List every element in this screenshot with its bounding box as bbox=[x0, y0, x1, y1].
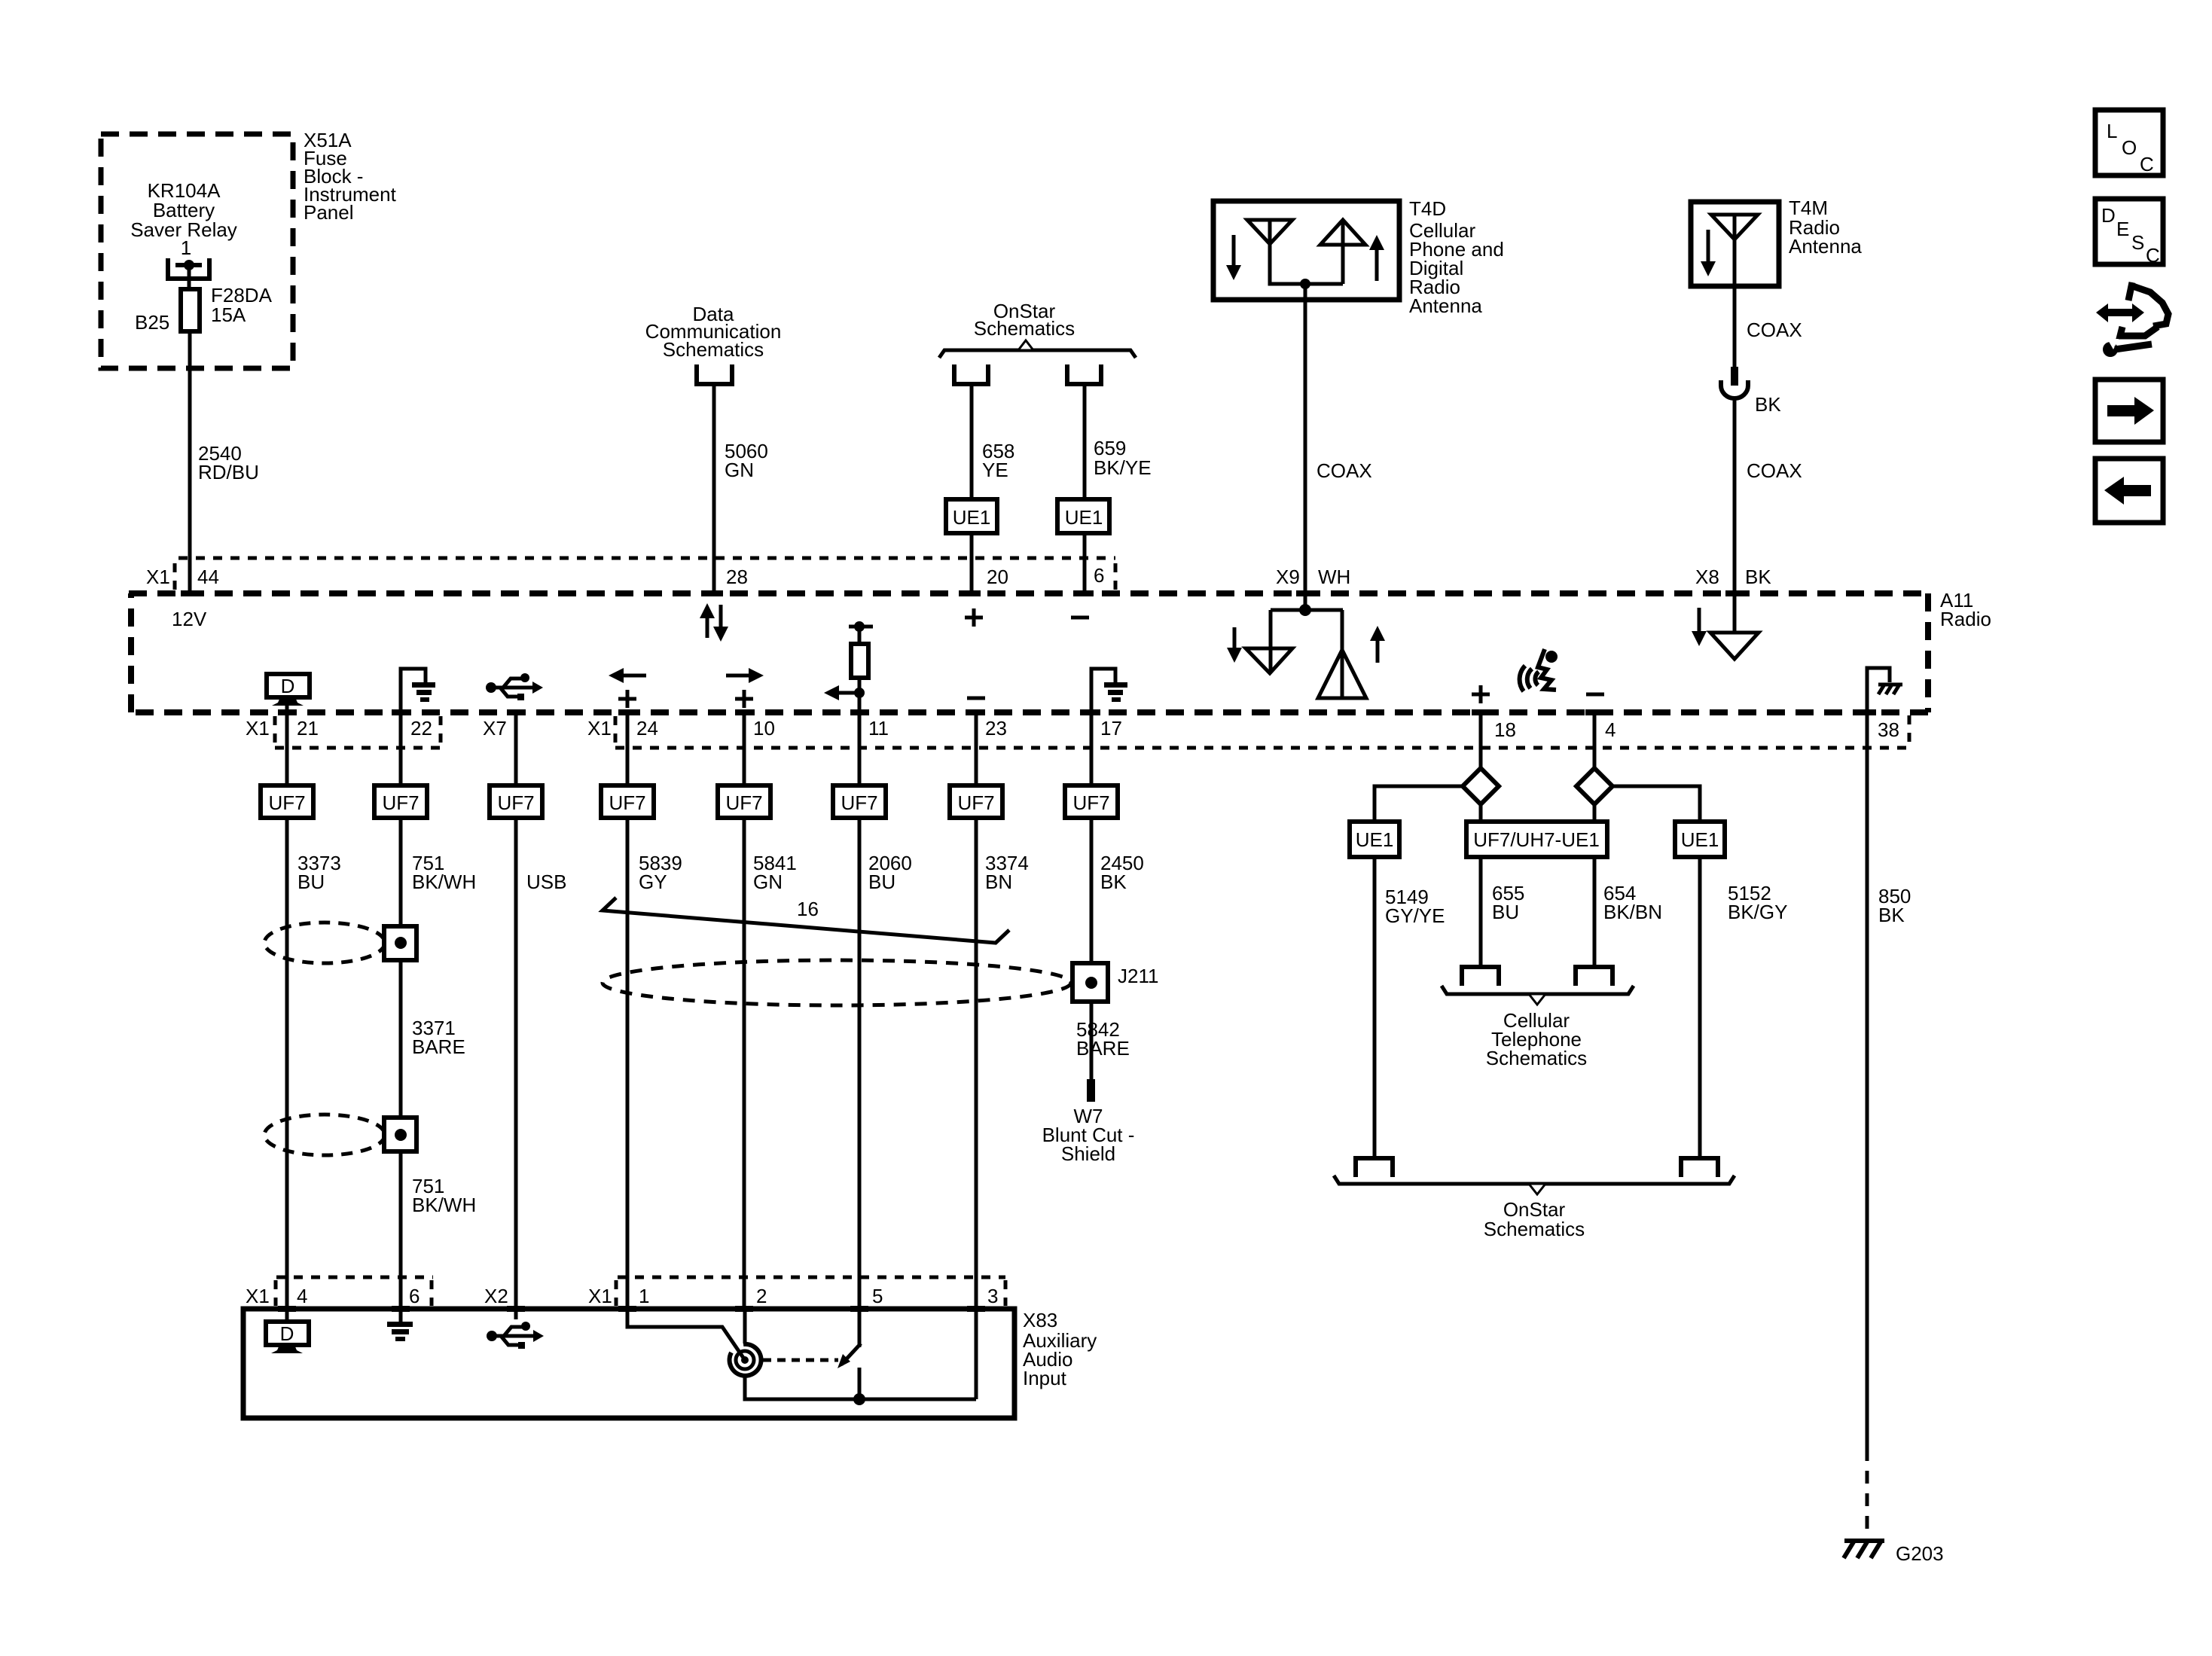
svg-text:BK: BK bbox=[1745, 566, 1771, 588]
shield ellipse to J211 bbox=[603, 960, 1071, 1005]
splice J211 bbox=[1072, 963, 1108, 1002]
svg-text:O: O bbox=[2122, 136, 2137, 159]
splice diamond at 4 bbox=[1576, 768, 1612, 804]
svg-text:BN: BN bbox=[985, 871, 1012, 893]
svg-text:C: C bbox=[2140, 153, 2154, 175]
Cellular Telephone bracket bbox=[1442, 986, 1634, 994]
svg-text:BK: BK bbox=[1878, 904, 1905, 926]
radio receive antenna symbol bbox=[1269, 610, 1273, 672]
svg-text:COAX: COAX bbox=[1747, 459, 1802, 482]
svg-text:BU: BU bbox=[868, 871, 895, 893]
wire 5839 GY bbox=[626, 818, 630, 1309]
pin X9 tick bbox=[1296, 590, 1314, 596]
earth ground icon in X83 bbox=[399, 1309, 403, 1323]
switch link dashed bbox=[763, 1359, 838, 1362]
svg-text:16: 16 bbox=[797, 898, 819, 920]
connector row ticks bbox=[273, 716, 277, 746]
svg-text:Panel: Panel bbox=[304, 201, 354, 224]
pin 18 tick and wire bbox=[1472, 709, 1490, 715]
svg-text:UE1: UE1 bbox=[1681, 828, 1719, 851]
wires pins to UF7 bbox=[285, 712, 289, 785]
svg-text:B25: B25 bbox=[135, 311, 169, 334]
T4M down arrow bbox=[1707, 230, 1710, 264]
wire 5842 BARE bbox=[1090, 1002, 1094, 1081]
svg-text:GN: GN bbox=[753, 871, 783, 893]
svg-text:15A: 15A bbox=[211, 303, 246, 326]
svg-text:28: 28 bbox=[726, 566, 748, 588]
wire 2060 BU bbox=[858, 818, 862, 1309]
svg-text:BK/YE: BK/YE bbox=[1094, 456, 1152, 479]
svg-text:GN: GN bbox=[725, 459, 754, 481]
svg-text:J211: J211 bbox=[1118, 965, 1158, 987]
twisted pair ellipse lower bbox=[264, 1115, 385, 1155]
USB icon in X83 bbox=[514, 1309, 518, 1319]
svg-text:18: 18 bbox=[1494, 718, 1516, 741]
DESC legend box bbox=[2095, 199, 2163, 264]
svg-text:X7: X7 bbox=[483, 717, 507, 740]
svg-text:YE: YE bbox=[982, 459, 1008, 481]
T4D transmit antenna bbox=[1320, 220, 1365, 245]
fuse block X51A dashed box bbox=[101, 134, 293, 368]
jack ring wire from pin 2 bbox=[743, 1309, 747, 1343]
X83 pin ticks bbox=[278, 1306, 296, 1312]
inline connector on coax bbox=[1731, 367, 1738, 386]
svg-text:E: E bbox=[2116, 218, 2129, 240]
resistor at pin 11 bbox=[849, 625, 873, 629]
cable 16 leader line bbox=[603, 898, 1009, 943]
svg-text:BU: BU bbox=[297, 871, 325, 893]
connector to cellular (654) bbox=[1576, 967, 1612, 986]
svg-text:X9: X9 bbox=[1276, 566, 1300, 588]
minus at pin 6 bbox=[1071, 616, 1089, 620]
connector UE1 (658) bbox=[946, 499, 997, 533]
microphone icon bbox=[1520, 649, 1556, 691]
svg-text:4: 4 bbox=[1605, 718, 1616, 741]
switch wire pin 5 bbox=[858, 1309, 862, 1347]
connector to cellular (655) bbox=[1462, 967, 1499, 986]
X83 connector row fine dashes bbox=[276, 1276, 433, 1279]
svg-text:T4D: T4D bbox=[1409, 197, 1446, 220]
earth ground icon in radio bbox=[401, 669, 426, 712]
svg-text:Radio: Radio bbox=[1940, 608, 1991, 630]
svg-text:Schematics: Schematics bbox=[1484, 1218, 1585, 1240]
display icon in radio bbox=[267, 674, 310, 697]
pin X7 tick bbox=[507, 709, 525, 715]
svg-text:44: 44 bbox=[197, 566, 219, 588]
svg-text:BARE: BARE bbox=[412, 1035, 465, 1058]
wire 850 BK bbox=[1866, 712, 1869, 1448]
right arrow at pin 10 bbox=[726, 674, 750, 678]
svg-text:S: S bbox=[2131, 231, 2144, 254]
OnStar bracket (top) bbox=[939, 350, 1136, 358]
pin 10 tick bbox=[735, 709, 753, 715]
T4D junction bbox=[1300, 279, 1310, 289]
svg-text:BK/GY: BK/GY bbox=[1728, 901, 1787, 923]
plus at pin 10 bbox=[735, 690, 753, 708]
pin 17 tick bbox=[1082, 709, 1100, 715]
T4D down arrow bbox=[1232, 235, 1236, 267]
svg-text:WH: WH bbox=[1318, 566, 1350, 588]
T4D receive antenna bbox=[1247, 220, 1292, 244]
svg-text:17: 17 bbox=[1100, 717, 1122, 740]
tick X1|44 bbox=[173, 563, 177, 592]
coax wire to radio bbox=[1733, 399, 1737, 632]
svg-text:10: 10 bbox=[753, 717, 775, 740]
wire pin 3 to sleeve bbox=[975, 1309, 978, 1399]
svg-text:BARE: BARE bbox=[1076, 1037, 1130, 1060]
twisted pair ellipse upper bbox=[264, 923, 385, 963]
svg-text:Shield: Shield bbox=[1061, 1142, 1115, 1165]
wires diamonds to UF7/UH7-UE1 bbox=[1481, 804, 1594, 822]
svg-text:COAX: COAX bbox=[1747, 319, 1802, 341]
svg-text:UF7: UF7 bbox=[957, 791, 994, 814]
svg-text:4: 4 bbox=[297, 1285, 307, 1307]
svg-text:UF7: UF7 bbox=[841, 791, 877, 814]
radio transmit up arrow bbox=[1376, 639, 1380, 663]
svg-text:UF7/UH7-UE1: UF7/UH7-UE1 bbox=[1473, 828, 1600, 851]
down arrow at X8 bbox=[1698, 608, 1701, 634]
svg-text:D: D bbox=[280, 1322, 294, 1345]
svg-text:22: 22 bbox=[410, 717, 432, 740]
pin 24 tick bbox=[618, 709, 636, 715]
legend forward arrow box bbox=[2095, 380, 2163, 442]
connector UE1 (5152) bbox=[1675, 822, 1725, 857]
svg-text:BK: BK bbox=[1755, 393, 1781, 416]
wire from relay to fuse bbox=[188, 265, 191, 289]
connector row X1 top fine dashed bbox=[178, 557, 1115, 560]
ground G203 bbox=[1844, 1541, 1884, 1558]
X83 connector row ticks bbox=[274, 1280, 278, 1306]
svg-text:UF7: UF7 bbox=[1072, 791, 1109, 814]
pin 28 tick bbox=[705, 590, 723, 596]
svg-text:D: D bbox=[2101, 204, 2116, 227]
svg-text:GY/YE: GY/YE bbox=[1385, 904, 1445, 927]
svg-text:3: 3 bbox=[987, 1285, 998, 1307]
connector row fine dashes bbox=[275, 746, 441, 750]
svg-text:23: 23 bbox=[985, 717, 1007, 740]
connector UE1 (5149) bbox=[1350, 822, 1399, 857]
wire 5149 GY/YE bbox=[1373, 857, 1377, 1157]
pin 4 tick and wire bbox=[1585, 709, 1603, 715]
pin 11 tick bbox=[850, 709, 868, 715]
radio A11 dashed box bbox=[129, 590, 1928, 596]
shield splice box lower bbox=[384, 1118, 416, 1151]
svg-text:X8: X8 bbox=[1695, 566, 1719, 588]
tick right of pin 38 bbox=[1908, 715, 1911, 746]
svg-text:12V: 12V bbox=[172, 608, 207, 630]
blunt cut end W7 bbox=[1087, 1079, 1095, 1102]
USB icon in radio bbox=[492, 679, 532, 697]
svg-text:X83: X83 bbox=[1023, 1309, 1057, 1331]
svg-text:6: 6 bbox=[409, 1285, 420, 1307]
svg-text:C: C bbox=[2146, 244, 2160, 267]
wire 658 YE bbox=[970, 384, 974, 501]
plus at pin 18 bbox=[1472, 685, 1490, 703]
svg-text:BK/WH: BK/WH bbox=[412, 1194, 476, 1216]
LOC legend box bbox=[2095, 110, 2163, 175]
branch arrow at pin 11 bbox=[854, 688, 865, 698]
svg-text:UF7: UF7 bbox=[609, 791, 645, 814]
wire 655 BU bbox=[1479, 857, 1483, 966]
shield splice box upper bbox=[384, 926, 416, 960]
svg-text:UE1: UE1 bbox=[1356, 828, 1394, 851]
svg-text:Antenna: Antenna bbox=[1789, 235, 1862, 258]
legend back arrow box bbox=[2095, 459, 2163, 523]
plus at pin 20 bbox=[965, 608, 983, 627]
switch arm bbox=[841, 1343, 861, 1365]
pin 44 tick bbox=[181, 590, 199, 596]
svg-text:BK: BK bbox=[1100, 871, 1127, 893]
svg-text:BU: BU bbox=[1492, 901, 1519, 923]
svg-text:UF7: UF7 bbox=[268, 791, 305, 814]
pin 22 tick bbox=[392, 709, 410, 715]
audio jack symbol bbox=[730, 1344, 761, 1376]
junction dot on sleeve bbox=[853, 1393, 865, 1405]
svg-text:Input: Input bbox=[1023, 1367, 1067, 1389]
svg-text:6: 6 bbox=[1094, 564, 1104, 587]
wire USB bbox=[514, 818, 518, 1309]
pin 21 tick bbox=[278, 709, 296, 715]
earth ground icon at pin 17 bbox=[1091, 669, 1115, 712]
svg-text:Schematics: Schematics bbox=[974, 317, 1075, 340]
svg-text:UF7: UF7 bbox=[725, 791, 762, 814]
svg-text:UF7: UF7 bbox=[382, 791, 419, 814]
wire 751 BK/WH bbox=[399, 818, 403, 1309]
wire diamond18 to UE1 left bbox=[1374, 786, 1463, 822]
wire 659 BK/YE bbox=[1083, 384, 1087, 499]
pin 20 tick bbox=[963, 590, 981, 596]
connector UF7/UH7-UE1 bbox=[1466, 822, 1607, 857]
svg-text:11: 11 bbox=[868, 717, 889, 740]
svg-text:1: 1 bbox=[181, 236, 191, 259]
svg-text:1: 1 bbox=[639, 1285, 649, 1307]
svg-text:X1: X1 bbox=[588, 1285, 612, 1307]
svg-text:UE1: UE1 bbox=[953, 506, 991, 529]
radio receive down arrow bbox=[1233, 627, 1237, 651]
connector to OnStar (5149) bbox=[1356, 1158, 1393, 1177]
svg-text:X1: X1 bbox=[246, 717, 270, 740]
svg-text:BK/WH: BK/WH bbox=[412, 871, 476, 893]
connector to data communication schematics bbox=[697, 364, 732, 384]
connector UE1 (659) bbox=[1057, 499, 1109, 533]
radio antenna symbol at X8 bbox=[1710, 633, 1759, 659]
bidirectional data arrows at pin 28 bbox=[706, 617, 709, 638]
svg-text:USB: USB bbox=[526, 871, 566, 893]
svg-text:RD/BU: RD/BU bbox=[198, 461, 259, 483]
svg-text:X1: X1 bbox=[246, 1285, 270, 1307]
wire 2450 BK bbox=[1090, 818, 1094, 963]
svg-text:20: 20 bbox=[987, 566, 1008, 588]
svg-text:24: 24 bbox=[636, 717, 658, 740]
chassis ground glyph pin 38 bbox=[1878, 685, 1902, 694]
wire 5152 BK/GY bbox=[1698, 857, 1702, 1157]
display icon in X83 bbox=[285, 1309, 289, 1322]
microphone dot bbox=[1545, 651, 1558, 663]
pin 23 tick bbox=[967, 709, 985, 715]
wire 654 BK/BN bbox=[1593, 857, 1597, 966]
plus at pin 24 bbox=[618, 690, 636, 708]
svg-text:38: 38 bbox=[1878, 718, 1899, 741]
legend route/repair icon bbox=[2096, 303, 2144, 322]
svg-text:Antenna: Antenna bbox=[1409, 294, 1482, 317]
connector to OnStar (5152) bbox=[1681, 1158, 1718, 1177]
svg-text:2: 2 bbox=[756, 1285, 767, 1307]
radio transmit antenna symbol bbox=[1341, 610, 1344, 698]
svg-text:5: 5 bbox=[872, 1285, 883, 1307]
X83 box bbox=[243, 1309, 1014, 1418]
UF7 boxes bbox=[261, 785, 1118, 818]
coax wire T4D to radio bbox=[1304, 284, 1307, 608]
junction inside radio bbox=[1299, 604, 1311, 616]
svg-text:UF7: UF7 bbox=[497, 791, 534, 814]
svg-text:Schematics: Schematics bbox=[663, 338, 764, 361]
tick right of pin 6 bbox=[1114, 563, 1118, 592]
minus at pin 23 bbox=[967, 697, 985, 700]
wire 3374 BN bbox=[975, 818, 978, 1309]
minus at pin 4 bbox=[1586, 693, 1604, 697]
svg-text:COAX: COAX bbox=[1317, 459, 1372, 482]
connector to OnStar schematics (658) bbox=[954, 364, 988, 384]
svg-text:21: 21 bbox=[297, 717, 319, 740]
OnStar bracket (bottom) bbox=[1334, 1176, 1735, 1184]
wire diamond4 to UE1 right bbox=[1612, 786, 1700, 822]
coax wire T4M bbox=[1733, 286, 1737, 367]
wire 3373 BU bbox=[285, 818, 289, 1309]
jack tip wire from pin 1 bbox=[627, 1309, 743, 1358]
pin 38 tick bbox=[1858, 709, 1876, 715]
T4M antenna symbol bbox=[1711, 215, 1758, 239]
svg-text:Schematics: Schematics bbox=[1486, 1047, 1587, 1069]
internal ground at pin 38 bbox=[1867, 668, 1890, 712]
antenna T4M box bbox=[1691, 202, 1779, 286]
svg-text:X1: X1 bbox=[587, 717, 612, 740]
connector to OnStar schematics (659) bbox=[1067, 364, 1101, 384]
wire 5841 GN bbox=[743, 818, 746, 1309]
jack sleeve wire bbox=[745, 1376, 976, 1399]
svg-text:BK/BN: BK/BN bbox=[1603, 901, 1662, 923]
pin 6 tick bbox=[1075, 590, 1094, 596]
wire 2540 RD/BU bbox=[188, 331, 192, 593]
svg-text:X1: X1 bbox=[146, 566, 170, 588]
left arrow at pin 24 bbox=[622, 674, 646, 678]
wire 5060 GN bbox=[712, 384, 716, 593]
radio internal antenna bar bbox=[1271, 608, 1343, 612]
svg-text:GY: GY bbox=[639, 871, 667, 893]
splice diamond at 18 bbox=[1463, 768, 1499, 804]
svg-text:D: D bbox=[281, 675, 295, 697]
svg-text:UE1: UE1 bbox=[1065, 506, 1103, 529]
dashed wire to G203 bbox=[1866, 1448, 1869, 1536]
T4D up arrow bbox=[1375, 249, 1379, 281]
svg-text:X2: X2 bbox=[484, 1285, 508, 1307]
pin X8 tick bbox=[1725, 590, 1744, 596]
svg-text:L: L bbox=[2107, 120, 2117, 142]
fuse F28DA bbox=[181, 289, 200, 331]
antenna T4D box bbox=[1213, 201, 1399, 300]
svg-text:G203: G203 bbox=[1896, 1542, 1944, 1565]
relay KR104A contact bbox=[168, 258, 209, 279]
